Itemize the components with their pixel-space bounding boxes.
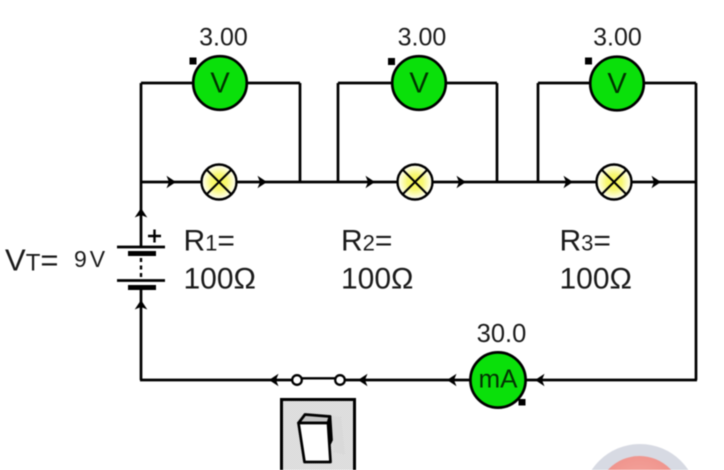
- current arrow left wire lower (up): [135, 300, 148, 310]
- ammeter M4: [470, 352, 525, 407]
- battery B1 plus sign: [148, 230, 161, 243]
- ammeter M4 terminal dot: [519, 399, 526, 406]
- wire loop3 left vertical: [537, 83, 540, 182]
- switch icon shadow: [331, 416, 345, 455]
- wire loop2 left vertical: [337, 83, 340, 182]
- current arrow top wire 3: [366, 176, 376, 189]
- voltmeter M3: [590, 57, 644, 111]
- battery B1 long plate 1: [117, 246, 165, 249]
- current arrow top wire 2: [258, 176, 268, 189]
- lamp L2: [398, 165, 433, 200]
- current arrow left wire upper (up): [135, 208, 148, 218]
- current arrow bottom wire 2 (left): [358, 374, 368, 387]
- wire loop3 top: [538, 82, 696, 85]
- switch icon top face: [299, 415, 331, 424]
- svg-text:100Ω: 100Ω: [560, 263, 632, 296]
- switch icon right face: [328, 417, 332, 445]
- voltmeter M2 terminal dot: [388, 58, 395, 65]
- voltmeter M1 terminal dot: [190, 58, 197, 65]
- wire loop2 right vertical: [496, 83, 499, 182]
- battery B1 thick plate 2: [128, 285, 156, 290]
- wire bottom left segment: [140, 379, 292, 382]
- wire left vertical upper (to battery): [140, 83, 143, 246]
- current arrow top wire 6: [652, 176, 662, 189]
- switch S1 control box: [282, 400, 355, 470]
- voltmeter M2: [392, 56, 446, 110]
- svg-text:mA: mA: [479, 364, 519, 394]
- svg-text:3.00: 3.00: [593, 24, 642, 52]
- watermark outer circle: [582, 444, 698, 470]
- current arrow bottom wire 4 (left): [535, 374, 545, 387]
- svg-text:V: V: [210, 68, 230, 100]
- wire loop1 right vertical: [299, 83, 302, 182]
- switch S1 terminal circle right: [335, 375, 345, 385]
- voltmeter M1: [193, 56, 247, 110]
- current arrow top wire 1: [167, 176, 177, 189]
- svg-text:9V: 9V: [74, 246, 108, 272]
- wire left vertical lower (battery to bottom): [140, 288, 143, 380]
- svg-text:100Ω: 100Ω: [341, 263, 413, 296]
- svg-text:3.00: 3.00: [398, 24, 447, 52]
- wire loop2 top: [338, 82, 497, 85]
- current arrow top wire 4: [457, 176, 467, 189]
- wire main horizontal: [141, 181, 696, 184]
- lamp L3: [597, 165, 632, 200]
- svg-text:30.0: 30.0: [477, 320, 527, 348]
- current arrow bottom wire 1 (left): [269, 374, 279, 387]
- watermark inner red circle: [597, 456, 683, 470]
- switch icon front face: [299, 423, 331, 462]
- switch S1 bar (closed): [300, 377, 337, 379]
- wire loop1 top: [141, 82, 300, 85]
- battery B1 long plate 2: [117, 279, 165, 282]
- battery B1 dashed center: [140, 258, 142, 278]
- svg-text:3.00: 3.00: [199, 24, 248, 52]
- current arrow top wire 5: [564, 176, 574, 189]
- svg-text:V: V: [409, 68, 429, 100]
- lamp L1: [202, 165, 237, 200]
- battery B1 thick plate 1: [128, 251, 156, 256]
- current arrow bottom wire 3 (left): [447, 374, 457, 387]
- voltmeter M3 terminal dot: [585, 58, 592, 65]
- switch S1 terminal circle left: [292, 375, 302, 385]
- svg-text:100Ω: 100Ω: [184, 263, 256, 296]
- wire right vertical: [695, 83, 698, 380]
- svg-text:V: V: [607, 68, 627, 100]
- wire bottom middle segment: [345, 379, 697, 382]
